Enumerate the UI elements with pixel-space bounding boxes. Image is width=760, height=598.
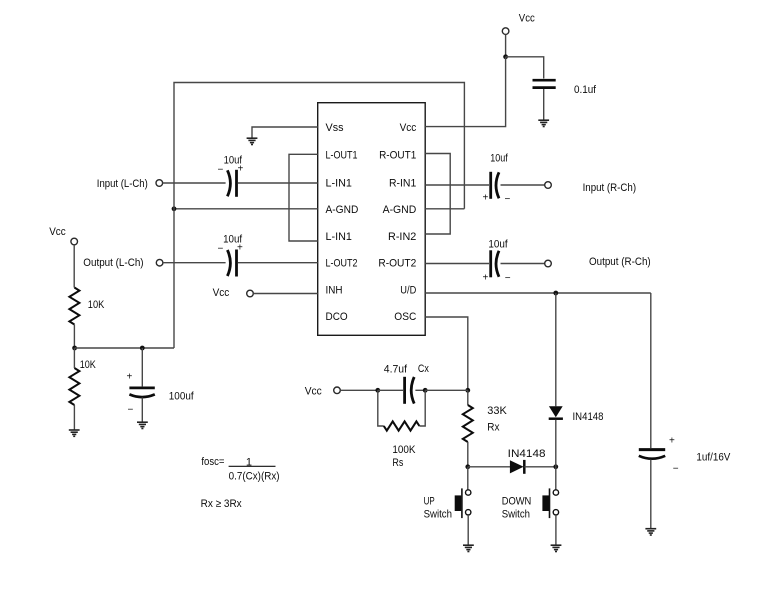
diode D2 IN4148 (vertical) <box>549 406 604 423</box>
svg-text:UP: UP <box>424 495 435 507</box>
wire 100uf to ground <box>141 398 143 422</box>
wire R-OUT1 to R-IN2 loop <box>425 154 450 235</box>
pin label L-IN1 (left row 3) <box>326 177 352 189</box>
wire DOWN switch to ground <box>555 515 557 545</box>
node Vcc terminal (INH) <box>213 287 254 299</box>
svg-text:+: + <box>483 193 489 204</box>
formula Rx >= 3Rx <box>201 498 243 510</box>
wire Vss to ground <box>252 127 318 138</box>
pin label R-IN2 (right row 5) <box>388 231 416 243</box>
wire diode D1 to down node <box>524 466 556 468</box>
wire Rs loop right leg <box>419 390 425 426</box>
wire Vcc to R1 <box>73 245 75 288</box>
wire Vcc to RC <box>340 389 378 391</box>
svg-text:fosc=: fosc= <box>201 456 224 468</box>
diode D1 IN4148 (horizontal) <box>508 448 546 474</box>
formula fosc <box>201 456 279 482</box>
pin label Vcc (right row 1) <box>400 122 417 134</box>
ground (UP switch) <box>463 545 474 551</box>
node divider mid junction <box>72 346 77 351</box>
ground (divider) <box>69 430 80 436</box>
node Input (L-Ch) terminal <box>97 178 163 190</box>
wire 0.1uf to ground <box>543 89 545 120</box>
ground (100uf) <box>137 422 148 428</box>
wire R-OUT2 to cap <box>425 263 489 265</box>
svg-text:100uf: 100uf <box>169 390 195 402</box>
svg-text:R-OUT2: R-OUT2 <box>378 258 416 270</box>
svg-text:−: − <box>128 405 134 416</box>
svg-text:IN4148: IN4148 <box>573 411 604 423</box>
pin label L-OUT1 (left row 2) <box>326 149 358 161</box>
svg-text:Rs: Rs <box>392 457 403 469</box>
wire RC right junction to OSC node <box>425 389 468 391</box>
IC U1 box <box>318 103 426 336</box>
resistor R1 10K <box>69 288 104 325</box>
capacitor C 1uf/16V <box>639 435 731 474</box>
node Vcc terminal (divider) <box>49 226 77 245</box>
node RC left junction <box>375 388 380 393</box>
wire A-GND left pin to left rail <box>174 208 318 210</box>
svg-text:INH: INH <box>326 284 343 296</box>
resistor Rx 33K <box>463 405 508 442</box>
pin label OSC (right row 8) <box>394 311 416 323</box>
svg-text:Output (R-Ch): Output (R-Ch) <box>589 256 651 268</box>
svg-text:10K: 10K <box>88 299 105 311</box>
wire junction to 0.1uf <box>506 57 544 79</box>
wire R2 to ground <box>73 405 75 430</box>
node Output (L-Ch) terminal <box>83 257 163 269</box>
node Input (R-Ch) terminal <box>545 182 636 194</box>
wire OSC to oscillator node <box>425 317 468 390</box>
svg-text:Vcc: Vcc <box>49 226 66 238</box>
capacitor 10uf (R output) <box>483 238 511 284</box>
svg-text:OSC: OSC <box>394 311 416 323</box>
ground (0.1uf) <box>538 120 549 126</box>
wire OSC node down to Rx <box>467 390 469 405</box>
svg-text:10uf: 10uf <box>488 238 508 250</box>
svg-text:L-OUT2: L-OUT2 <box>326 258 358 270</box>
svg-text:+: + <box>669 435 675 446</box>
svg-text:IN4148: IN4148 <box>508 448 546 460</box>
switch SW1 UP <box>424 488 471 520</box>
ground (1uf) <box>645 529 656 535</box>
svg-text:Rx: Rx <box>487 422 500 434</box>
node Vcc junction <box>503 54 508 59</box>
wire cap to terminal <box>501 184 545 186</box>
node Vcc terminal (oscillator) <box>305 386 341 398</box>
capacitor 10uf (L input) <box>218 155 244 197</box>
svg-text:L-IN1: L-IN1 <box>326 177 352 189</box>
switch SW2 DOWN <box>502 488 559 520</box>
node RC right junction <box>423 388 428 393</box>
pin label A-GND (left row 4) <box>326 204 359 216</box>
svg-text:1uf/16V: 1uf/16V <box>696 452 731 464</box>
wire cap to terminal <box>501 263 545 265</box>
svg-text:DOWN: DOWN <box>502 495 532 507</box>
wire right column down to 1uf cap <box>650 293 652 448</box>
svg-text:A-GND: A-GND <box>383 204 417 216</box>
svg-text:Input (L-Ch): Input (L-Ch) <box>97 178 148 190</box>
svg-text:Cx: Cx <box>418 363 429 375</box>
svg-text:Switch: Switch <box>502 508 530 520</box>
svg-text:R-IN1: R-IN1 <box>389 177 416 189</box>
wire R1 to mid node <box>73 325 75 349</box>
pin label R-OUT1 (right row 2) <box>379 149 416 161</box>
wire input L to cap <box>163 182 226 184</box>
pin label L-OUT2 (left row 6) <box>326 258 358 270</box>
node Output (R-Ch) terminal <box>545 256 651 268</box>
svg-text:−: − <box>505 273 511 284</box>
wire L-OUT1 to L-IN1 loop <box>289 154 318 241</box>
svg-text:Vcc: Vcc <box>305 386 322 398</box>
wire mid node to left rail <box>75 347 174 349</box>
svg-text:Input (R-Ch): Input (R-Ch) <box>583 182 637 194</box>
svg-text:R-OUT1: R-OUT1 <box>379 149 416 161</box>
svg-text:+: + <box>237 243 243 254</box>
wire U/D to right column <box>425 292 651 294</box>
svg-text:10uf: 10uf <box>490 153 508 165</box>
svg-text:U/D: U/D <box>400 284 416 296</box>
ground (Vss) <box>247 138 258 144</box>
svg-text:Vcc: Vcc <box>519 13 535 25</box>
svg-text:+: + <box>483 273 489 284</box>
svg-text:L-IN1: L-IN1 <box>326 231 352 243</box>
node OSC junction <box>465 388 470 393</box>
node U/D junction (diode branch) <box>553 291 558 296</box>
svg-text:L-OUT1: L-OUT1 <box>326 149 358 161</box>
wire R-IN1 to cap <box>425 184 489 186</box>
wire 1uf to ground <box>650 460 652 529</box>
wire junction to diode D1 <box>468 466 510 468</box>
svg-text:10K: 10K <box>80 359 97 371</box>
wire cap to L-IN1 <box>238 182 318 184</box>
svg-text:R-IN2: R-IN2 <box>388 231 416 243</box>
wire junction to 100uf <box>141 348 143 386</box>
svg-text:Vcc: Vcc <box>400 122 417 134</box>
wire Vcc to INH <box>253 293 317 295</box>
svg-text:Vcc: Vcc <box>213 287 230 299</box>
wire RC left to cap <box>378 389 403 391</box>
svg-text:Rx ≥ 3Rx: Rx ≥ 3Rx <box>201 498 243 510</box>
pin label U/D (right row 7) <box>400 284 416 296</box>
pin label L-IN1 (left row 5) <box>326 231 352 243</box>
wire right junction to DOWN switch <box>555 467 557 490</box>
wire Vcc down to junction <box>505 34 507 56</box>
pin label R-OUT2 (right row 6) <box>378 258 416 270</box>
wire Rs loop left leg <box>378 390 384 426</box>
svg-text:−: − <box>505 194 511 205</box>
node Vcc terminal (top) <box>502 13 535 35</box>
wire Rx to switch row <box>467 442 469 467</box>
wire junction to IC Vcc pin <box>425 57 505 127</box>
node A-GND junction on left rail <box>172 206 177 211</box>
svg-text:−: − <box>218 165 224 176</box>
svg-text:A-GND: A-GND <box>326 204 359 216</box>
wire mid node to R2 <box>73 348 75 368</box>
pin label A-GND (right row 4) <box>383 204 417 216</box>
wire U/D junction down to diode D2 <box>555 293 557 406</box>
svg-text:Switch: Switch <box>424 508 452 520</box>
wire UP switch to ground <box>467 515 469 545</box>
node 100uf junction <box>140 346 145 351</box>
node switch row right junction <box>553 464 558 469</box>
wire output L to cap <box>163 262 226 264</box>
svg-text:0.7(Cx)(Rx): 0.7(Cx)(Rx) <box>229 470 280 482</box>
svg-text:Vss: Vss <box>326 122 344 134</box>
svg-text:+: + <box>238 164 244 175</box>
svg-text:33K: 33K <box>487 405 507 417</box>
svg-text:+: + <box>127 371 133 382</box>
svg-text:0.1uf: 0.1uf <box>574 84 597 96</box>
wire left junction to UP switch <box>467 467 469 490</box>
capacitor C 0.1uf <box>533 80 597 96</box>
resistor Rs 100K <box>384 421 420 469</box>
pin label INH (left row 7) <box>326 284 343 296</box>
resistor R2 10K <box>69 359 96 405</box>
node switch row left junction <box>465 464 470 469</box>
capacitor C 100uf <box>127 371 195 415</box>
pin label DCO (left row 8) <box>326 311 349 323</box>
ground (DOWN switch) <box>551 545 562 551</box>
capacitor 10uf (R input) <box>483 153 511 205</box>
capacitor 10uf (L output) <box>218 234 244 277</box>
svg-text:DCO: DCO <box>326 311 349 323</box>
capacitor Cx 4.7uf <box>384 363 430 404</box>
wire A-GND loop over IC (left rail, top, right drop) <box>174 83 464 349</box>
svg-text:−: − <box>673 464 679 475</box>
wire cap to RC right junction <box>415 389 425 391</box>
wire diode D2 to down node <box>555 420 557 467</box>
svg-text:−: − <box>218 244 224 255</box>
wire A-GND right pin to loop <box>425 208 464 210</box>
svg-text:Output (L-Ch): Output (L-Ch) <box>83 257 143 269</box>
svg-text:100K: 100K <box>392 444 416 456</box>
svg-text:4.7uf: 4.7uf <box>384 364 408 376</box>
pin label R-IN1 (right row 3) <box>389 177 416 189</box>
wire cap to L-OUT2 <box>238 262 318 264</box>
pin label Vss (left row 1) <box>326 122 344 134</box>
